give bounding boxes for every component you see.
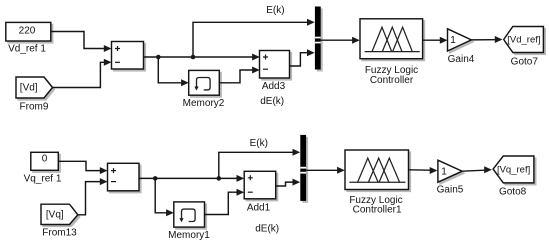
wire Fuzzy Logic Controller to Gain4	[423, 37, 448, 44]
svg-text:220: 220	[19, 25, 36, 36]
wire branch up E(k) to Mux first input	[193, 19, 315, 57]
wire Add3 output to Mux second input	[290, 49, 315, 66]
wire branch down to Memory2 input	[158, 57, 189, 86]
wire branch up E(k) to Mux1 first input	[219, 149, 300, 179]
wire constant 220 to Sum + input	[51, 32, 112, 53]
svg-text:0: 0	[42, 154, 48, 165]
svg-text:From13: From13	[42, 228, 77, 239]
gain block Gain4	[448, 29, 474, 53]
memory block Memory1	[174, 202, 207, 229]
svg-text:Vd_ref 1: Vd_ref 1	[8, 43, 46, 54]
wire Mux1 output to Fuzzy Logic Controller1	[306, 167, 345, 174]
label Fuzzy Logic Controller	[365, 65, 418, 86]
svg-text:1: 1	[450, 35, 456, 46]
svg-text:Goto7: Goto7	[511, 56, 539, 67]
from block From13 [Vq]	[41, 204, 80, 226]
memory block Memory2	[189, 70, 222, 97]
constant block Vd_ref 1 value 220	[6, 22, 53, 43]
svg-text:dE(k): dE(k)	[260, 96, 284, 107]
svg-text:[Vq]: [Vq]	[46, 210, 64, 221]
gain block Gain5	[438, 160, 464, 184]
fuzzy logic controller block (row 1)	[360, 19, 425, 61]
goto block Goto7 [Vd_ref]	[504, 27, 546, 55]
wire Fuzzy Logic Controller1 to Gain5	[409, 167, 438, 174]
svg-text:Add1: Add1	[247, 203, 271, 214]
svg-text:Memory2: Memory2	[183, 98, 225, 109]
sum block Sum1 (row 2)	[108, 163, 142, 193]
svg-text:Vq_ref 1: Vq_ref 1	[24, 174, 62, 185]
svg-text:From9: From9	[20, 102, 49, 113]
svg-text:[Vd]: [Vd]	[20, 83, 38, 94]
junction node on Sum1 output (to E(k) wire)	[217, 176, 222, 181]
sum block Add3	[260, 51, 292, 81]
svg-text:Gain5: Gain5	[437, 184, 464, 195]
junction node on Sum output (to Memory2)	[156, 55, 161, 60]
junction node on Sum output (to E(k) wire)	[191, 55, 196, 60]
wire Sum1 output to Add1 + input	[139, 175, 244, 182]
wire branch down to Memory1 input	[155, 178, 174, 216]
svg-text:1: 1	[441, 166, 447, 177]
svg-text:dE(k): dE(k)	[255, 223, 279, 234]
wire From13 to Sum1 - input	[78, 178, 108, 215]
svg-text:[Vq_ref]: [Vq_ref]	[497, 165, 530, 176]
svg-text:E(k): E(k)	[266, 5, 284, 16]
junction node on Sum1 output (to Memory1)	[153, 176, 158, 181]
svg-text:E(k): E(k)	[250, 138, 268, 149]
mux block (row 1)	[315, 7, 323, 72]
wire From9 to Sum - input	[53, 59, 112, 88]
wire Memory2 output to Add3 - input	[219, 67, 259, 83]
from block From9 [Vd]	[16, 77, 55, 100]
sum block Sum (row 1)	[112, 42, 146, 72]
wire Add1 output to Mux1 second input	[276, 179, 301, 186]
svg-text:Controller: Controller	[370, 75, 414, 86]
svg-text:Controller1: Controller1	[353, 204, 402, 215]
wire Sum output to Add3 + input	[144, 54, 260, 61]
label Fuzzy Logic Controller1	[349, 195, 402, 216]
wire constant 0 to Sum1 + input	[58, 161, 107, 174]
wire Gain5 to Goto8	[462, 166, 492, 173]
goto block Goto8 [Vq_ref]	[493, 156, 536, 185]
svg-text:[Vd_ref]: [Vd_ref]	[507, 35, 540, 46]
fuzzy logic controller block (row 2)	[345, 150, 411, 192]
svg-text:Memory1: Memory1	[168, 230, 210, 241]
constant block Vq_ref 1 value 0	[31, 152, 61, 172]
svg-text:Add3: Add3	[262, 81, 286, 92]
svg-text:Goto8: Goto8	[499, 187, 527, 198]
wire Gain4 to Goto7	[471, 36, 502, 43]
sum block Add1	[244, 171, 278, 201]
wire Mux output to Fuzzy Logic Controller	[321, 37, 360, 44]
mux block (row 2)	[300, 135, 308, 203]
svg-text:Gain4: Gain4	[448, 54, 475, 65]
wire Memory1 output to Add1 - input	[205, 189, 245, 215]
